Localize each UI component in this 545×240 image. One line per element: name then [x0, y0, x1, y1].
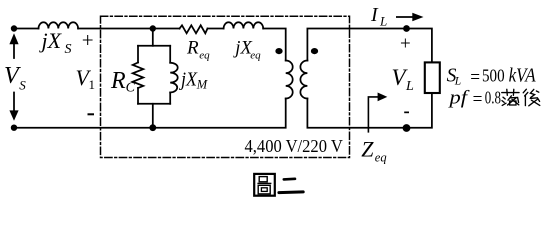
svg-text:=: =	[473, 89, 483, 110]
Vs source lower lead	[13, 93, 15, 113]
polarity dot secondary	[311, 48, 318, 54]
shunt loop bottom	[138, 103, 170, 105]
svg-text:R: R	[186, 38, 199, 59]
inductor jXs	[39, 22, 79, 28]
label minus VL	[404, 112, 409, 114]
wire top-left: source node to jXs	[14, 28, 39, 30]
wire secondary bottom	[307, 93, 432, 128]
Zeq arrow	[368, 97, 379, 133]
CJK glyph luo (lagging #1)	[502, 89, 519, 105]
svg-text:L: L	[405, 79, 414, 94]
svg-text:I: I	[370, 4, 379, 26]
svg-text:4,400 V/220 V: 4,400 V/220 V	[245, 136, 344, 156]
Vs up arrowhead	[9, 33, 18, 44]
node dot bottom-left	[11, 125, 17, 131]
svg-text:+: +	[400, 34, 411, 55]
wire jXs to Req	[78, 28, 179, 30]
figure caption: CJK tu (figure)	[254, 174, 275, 196]
shunt stub bottom	[152, 104, 154, 128]
svg-text:jX: jX	[178, 69, 197, 91]
svg-text:eq: eq	[250, 49, 261, 61]
label minus V1	[88, 113, 95, 115]
svg-text:R: R	[110, 68, 126, 94]
svg-text:eq: eq	[375, 151, 387, 165]
IL current arrow	[396, 16, 414, 18]
wire jXeq to primary winding	[263, 29, 286, 61]
svg-text:L: L	[454, 76, 461, 88]
Rc branch upper lead	[137, 46, 139, 63]
transformer primary winding	[286, 61, 293, 99]
resistor Req	[180, 25, 208, 33]
Vs down arrowhead	[9, 110, 18, 120]
svg-text:jX: jX	[39, 28, 63, 53]
svg-text:=: =	[470, 67, 480, 88]
inductor jXeq	[224, 22, 264, 28]
svg-text:C: C	[126, 80, 136, 95]
svg-text:S: S	[65, 42, 72, 57]
node dot shunt top	[150, 25, 156, 31]
node dot shunt bottom	[149, 124, 156, 131]
node dot top-left	[11, 25, 17, 31]
Vs source upper lead	[13, 44, 15, 59]
shunt loop top	[138, 45, 170, 47]
polarity dot primary	[275, 48, 282, 54]
Rc branch lower lead	[137, 88, 139, 104]
svg-text:L: L	[379, 14, 387, 29]
Xm branch upper lead	[169, 46, 171, 63]
svg-text:0.8: 0.8	[485, 88, 501, 108]
resistor Rc	[133, 63, 144, 89]
load resistor box	[425, 62, 440, 93]
figure caption: CJK er (two)	[279, 179, 303, 193]
wire Req to jXeq	[208, 28, 224, 30]
svg-text:1: 1	[89, 77, 96, 92]
CJK glyph hou (lagging #2)	[523, 89, 540, 106]
svg-text:kVA: kVA	[509, 65, 537, 87]
dashed transformer-model box	[101, 16, 350, 157]
svg-text:eq: eq	[199, 49, 210, 61]
node dot load bottom	[403, 124, 411, 132]
svg-text:M: M	[196, 77, 208, 91]
svg-text:Z: Z	[361, 137, 374, 162]
svg-text:+: +	[82, 28, 94, 52]
wire secondary top	[307, 29, 432, 63]
transformer secondary winding	[300, 61, 307, 99]
svg-text:500: 500	[482, 66, 505, 86]
node dot load top	[403, 25, 410, 32]
shunt stub top	[152, 29, 154, 46]
Xm branch lower lead	[169, 93, 171, 104]
svg-text:S: S	[19, 78, 26, 93]
svg-text:pf: pf	[447, 88, 470, 109]
wire primary winding to bottom rail	[14, 99, 286, 128]
inductor jXm	[170, 63, 177, 93]
